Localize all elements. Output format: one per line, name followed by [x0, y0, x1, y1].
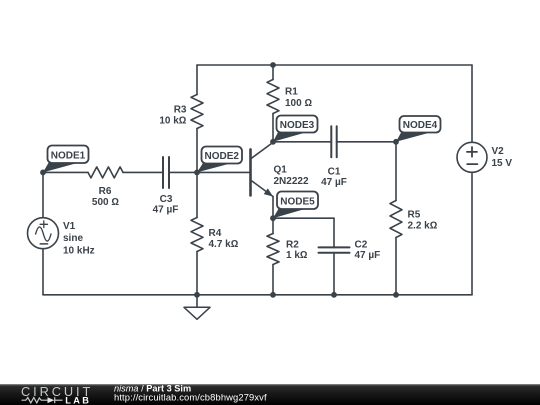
wire V2 bottom lead	[471, 172, 473, 295]
resistor R4	[191, 218, 203, 252]
wire R3 bottom lead	[196, 129, 198, 173]
wire node5 to C2	[273, 217, 334, 219]
resistor R2	[267, 234, 279, 265]
label R2 value	[286, 240, 308, 261]
wire V1 bottom lead	[42, 249, 44, 295]
node label NODE4	[396, 116, 441, 142]
svg-text:Q1: Q1	[274, 164, 288, 175]
svg-text:NODE3: NODE3	[280, 120, 315, 131]
svg-text:NODE1: NODE1	[51, 150, 86, 161]
wire R4 bottom lead	[196, 252, 198, 295]
wire R3 top lead	[196, 65, 198, 95]
svg-text:2N2222: 2N2222	[274, 176, 309, 187]
svg-text:NODE4: NODE4	[403, 120, 438, 131]
label C1 value	[321, 166, 347, 188]
wire node3 to C1	[273, 141, 331, 143]
svg-text:1 kΩ: 1 kΩ	[286, 250, 308, 261]
voltage source V2	[457, 142, 487, 172]
label V2 value	[492, 146, 513, 169]
wire R4 top lead	[196, 172, 198, 217]
svg-text:http://circuitlab.com/cb8bhwg2: http://circuitlab.com/cb8bhwg279xvf	[114, 392, 267, 403]
wire C2 bottom lead	[333, 253, 335, 295]
label R6 value	[92, 186, 119, 208]
capacitor C3	[163, 157, 169, 188]
wire Q1 emitter lead	[272, 197, 274, 219]
svg-text:47 µF: 47 µF	[153, 205, 179, 216]
svg-text:NODE2: NODE2	[204, 151, 239, 162]
wire R2 top lead	[272, 218, 274, 233]
wire R1 top lead	[272, 65, 274, 80]
label R5 value	[408, 209, 438, 231]
label R1 value	[285, 87, 312, 109]
wire node2 to Q1 base	[197, 171, 251, 173]
wire R6 to C3	[123, 171, 163, 173]
svg-text:R4: R4	[209, 228, 222, 239]
label V1 value	[63, 221, 95, 257]
wire R1 bottom lead to node3	[272, 114, 274, 142]
node dot ground rail R5	[393, 292, 399, 298]
footer bar	[0, 384, 540, 405]
svg-text:sine: sine	[63, 233, 83, 244]
wire R5 top lead	[395, 142, 397, 201]
footer logo resistor-diode glyph	[22, 397, 63, 403]
label Q1 value	[274, 164, 309, 186]
capacitor C1	[331, 126, 336, 157]
node dot at NODE2	[194, 170, 200, 176]
label R3 value	[159, 105, 187, 127]
wire V1 top lead	[42, 172, 44, 217]
resistor R5	[390, 201, 402, 238]
label C2 value	[355, 240, 381, 261]
svg-text:C3: C3	[160, 194, 173, 205]
voltage source V1	[28, 218, 59, 249]
svg-text:500 Ω: 500 Ω	[92, 197, 119, 208]
svg-text:100 Ω: 100 Ω	[285, 98, 312, 109]
svg-text:R3: R3	[174, 105, 187, 116]
node dot at NODE5	[270, 215, 276, 221]
resistor R1	[267, 80, 279, 114]
svg-text:V1: V1	[63, 221, 76, 232]
svg-text:LAB: LAB	[65, 395, 91, 405]
svg-text:V2: V2	[492, 146, 505, 157]
svg-text:R6: R6	[99, 186, 112, 197]
wire C2 top lead	[333, 218, 335, 247]
svg-text:15 V: 15 V	[492, 158, 513, 169]
node dot ground rail R4	[194, 292, 200, 298]
svg-text:10 kHz: 10 kHz	[63, 246, 95, 257]
node dot at NODE4	[393, 139, 399, 145]
label C3 value	[153, 194, 179, 216]
svg-text:C1: C1	[328, 166, 341, 177]
resistor R6	[88, 167, 123, 178]
capacitor C2	[319, 247, 350, 252]
wire V2 top lead	[471, 65, 473, 142]
ground	[184, 295, 210, 320]
wire bottom ground rail	[43, 294, 472, 296]
svg-text:47 µF: 47 µF	[355, 250, 381, 261]
node dot at NODE3	[270, 139, 276, 145]
wire top rail	[197, 64, 472, 66]
svg-text:R5: R5	[408, 209, 421, 220]
node dot ground rail R2	[270, 292, 276, 298]
wire C3 to node2	[169, 171, 197, 173]
transistor Q1	[251, 142, 274, 196]
wire node1 to R6	[43, 171, 88, 173]
svg-text:47 µF: 47 µF	[321, 177, 347, 188]
node dot top rail R1	[270, 62, 276, 68]
svg-text:10 kΩ: 10 kΩ	[159, 115, 186, 126]
svg-text:2.2 kΩ: 2.2 kΩ	[408, 220, 438, 231]
resistor R3	[191, 95, 203, 129]
node label NODE2	[197, 147, 242, 173]
wire R2 bottom lead	[272, 265, 274, 295]
node dot ground rail C2	[331, 292, 337, 298]
node label NODE5	[273, 192, 318, 219]
node label NODE3	[273, 116, 318, 142]
wire C1 to node4	[337, 141, 396, 143]
svg-text:R1: R1	[285, 87, 298, 98]
svg-text:NODE5: NODE5	[280, 196, 315, 207]
node dot at NODE1	[40, 170, 46, 176]
node label NODE1	[43, 146, 89, 173]
svg-text:4.7 kΩ: 4.7 kΩ	[209, 239, 239, 250]
wire R5 bottom lead	[395, 238, 397, 295]
label R4 value	[209, 228, 239, 250]
